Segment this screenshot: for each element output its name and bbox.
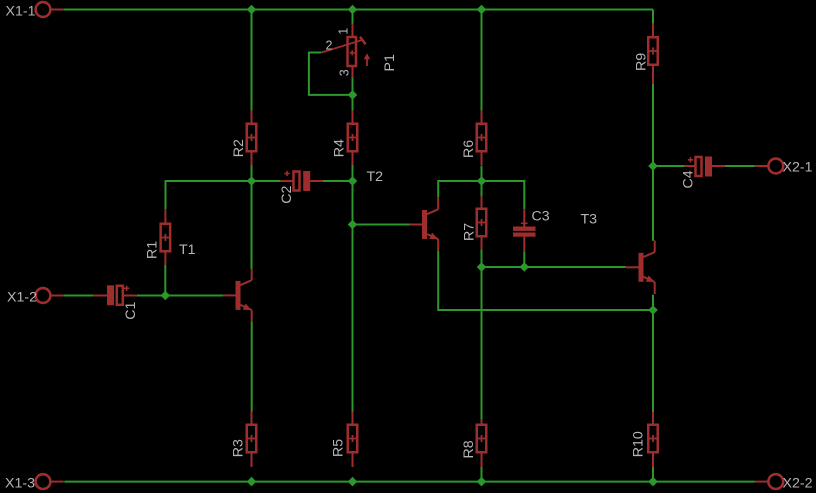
- svg-text:R2: R2: [231, 139, 247, 157]
- svg-text:X2-1: X2-1: [783, 160, 813, 176]
- svg-text:T2: T2: [367, 169, 384, 185]
- svg-text:C3: C3: [532, 208, 550, 224]
- svg-text:P1: P1: [382, 54, 398, 71]
- svg-text:R4: R4: [331, 139, 347, 157]
- svg-text:R1: R1: [144, 241, 160, 259]
- svg-text:C2: C2: [279, 185, 295, 203]
- svg-text:R10: R10: [630, 431, 646, 457]
- svg-text:X1-2: X1-2: [7, 290, 37, 306]
- svg-text:T1: T1: [179, 242, 196, 258]
- svg-text:R5: R5: [331, 439, 347, 457]
- svg-text:R9: R9: [633, 53, 649, 71]
- svg-text:C4: C4: [681, 170, 697, 188]
- svg-text:R6: R6: [461, 140, 477, 158]
- svg-text:2: 2: [326, 38, 333, 52]
- svg-text:R7: R7: [462, 223, 478, 241]
- svg-text:R3: R3: [231, 439, 247, 457]
- svg-text:C1: C1: [123, 302, 139, 320]
- svg-text:3: 3: [337, 69, 351, 76]
- svg-text:R8: R8: [461, 440, 477, 458]
- svg-text:X1-3: X1-3: [5, 476, 35, 492]
- svg-text:X2-2: X2-2: [783, 476, 813, 492]
- svg-text:1: 1: [336, 28, 350, 35]
- svg-text:X1-1: X1-1: [6, 3, 36, 19]
- svg-text:T3: T3: [581, 212, 598, 228]
